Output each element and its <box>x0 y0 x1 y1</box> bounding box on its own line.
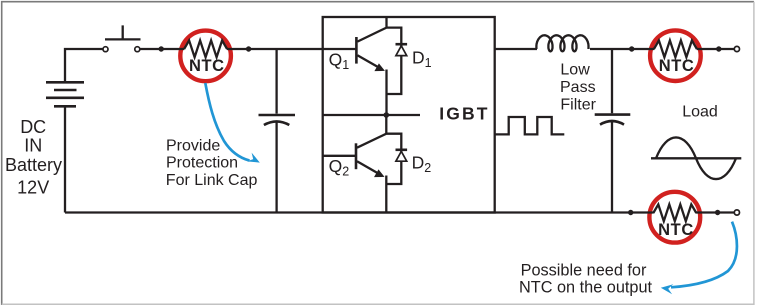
transistor Q2 <box>355 143 358 169</box>
wire inductor to NTC2 <box>590 48 654 50</box>
svg-text:DC: DC <box>20 117 46 137</box>
wire NTC1 to IGBT box (Q1 base) <box>227 48 357 50</box>
NTC2 thermistor zigzag <box>654 40 697 57</box>
svg-text:IN: IN <box>24 136 42 156</box>
mid junction dot <box>384 112 390 118</box>
svg-text:Low: Low <box>560 61 590 78</box>
output terminal bottom <box>734 210 739 215</box>
battery bottom lead <box>64 106 66 212</box>
svg-text:12V: 12V <box>17 178 49 198</box>
junction dot <box>159 46 164 51</box>
bottom rail left <box>65 211 654 213</box>
svg-text:Provide: Provide <box>166 137 220 154</box>
diode D1 <box>396 43 408 46</box>
inductor L1 <box>536 35 588 51</box>
switch contact circle right <box>135 47 140 52</box>
NTC3 thermistor zigzag <box>653 204 696 221</box>
junction dot bottom left of NTC3 <box>628 210 633 215</box>
battery B1 plates <box>46 82 84 106</box>
blue arrow to link cap <box>205 83 249 161</box>
svg-text:NTC: NTC <box>658 221 694 239</box>
svg-text:IGBT: IGBT <box>439 104 489 124</box>
NTC3 red circle <box>649 192 700 243</box>
NTC2 red circle <box>650 30 701 81</box>
mid node line <box>323 114 420 116</box>
transistor Q2 base lead <box>323 155 356 157</box>
svg-text:Filter: Filter <box>560 96 596 113</box>
switch contact circle left <box>103 47 108 52</box>
svg-text:Battery: Battery <box>5 155 62 175</box>
transistor Q1 <box>355 37 358 64</box>
junction dot <box>246 46 251 51</box>
blue arrow NTC on output <box>671 222 737 288</box>
filter capacitor C2 <box>611 49 613 113</box>
sine wave curve <box>656 137 736 179</box>
svg-text:Load: Load <box>682 103 718 120</box>
svg-text:Pass: Pass <box>560 79 596 96</box>
wire battery top lead to switch <box>65 49 103 83</box>
junction dot <box>629 46 634 51</box>
svg-text:NTC: NTC <box>659 57 695 75</box>
svg-text:NTC: NTC <box>189 57 225 75</box>
wire NTC2 to terminal <box>697 48 735 50</box>
switch bar <box>105 25 141 39</box>
junction dot <box>716 46 721 51</box>
link capacitor C1 <box>275 49 277 114</box>
svg-text:Possible need for: Possible need for <box>521 262 647 280</box>
NTC1 red circle <box>180 31 231 82</box>
square wave symbol <box>495 117 565 134</box>
IGBT module box <box>323 17 495 213</box>
wire switch to NTC1 <box>140 48 185 50</box>
sine wave load symbol axis <box>651 157 741 159</box>
bottom rail right of NTC3 <box>696 211 734 213</box>
output terminal top <box>734 46 739 51</box>
svg-text:NTC on the output: NTC on the output <box>519 278 653 296</box>
diode D2 <box>396 149 408 152</box>
svg-text:For Link Cap: For Link Cap <box>166 172 258 189</box>
junction dot bottom right of NTC3 <box>715 210 720 215</box>
wire IGBT to inductor <box>495 48 537 50</box>
NTC1 thermistor zigzag <box>184 40 227 57</box>
svg-text:Protection: Protection <box>166 155 238 172</box>
